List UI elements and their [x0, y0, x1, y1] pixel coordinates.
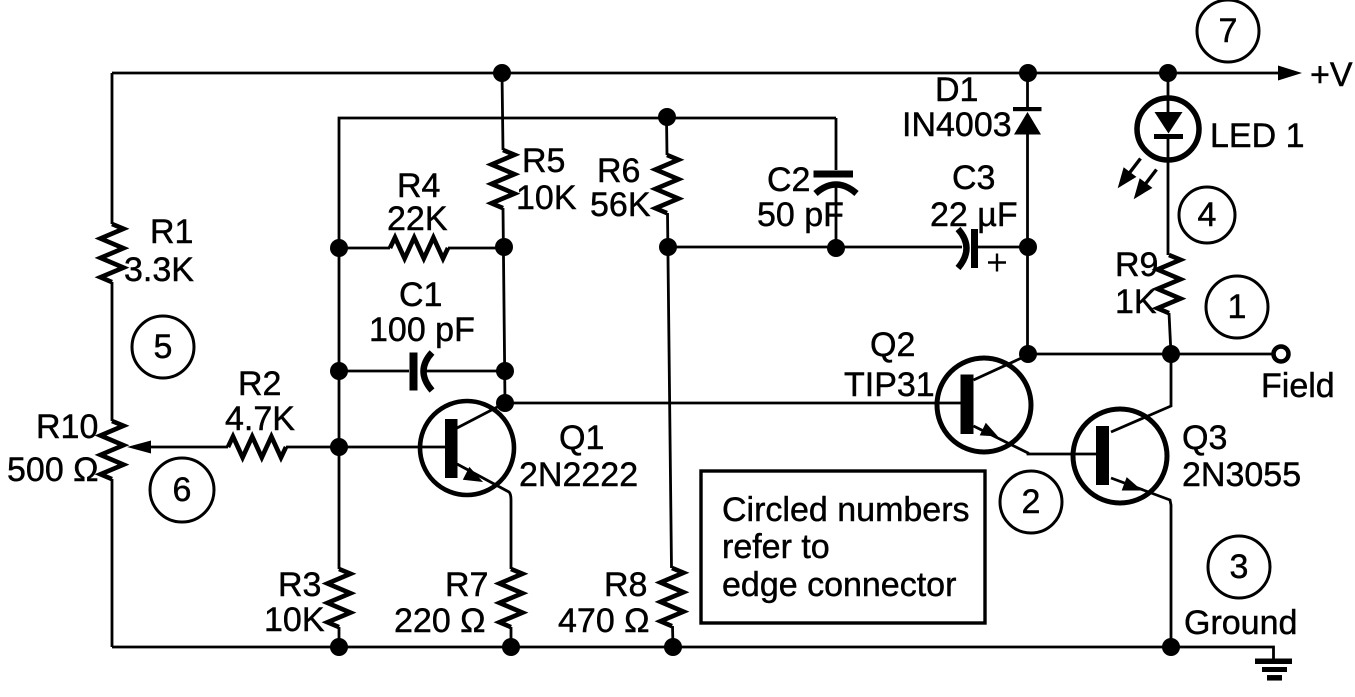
svg-text:22 µF: 22 µF	[930, 196, 1018, 234]
svg-text:56K: 56K	[590, 186, 651, 224]
svg-text:C1: C1	[399, 276, 442, 314]
svg-text:Ground: Ground	[1184, 604, 1297, 642]
svg-text:10K: 10K	[264, 601, 325, 639]
svg-text:1K: 1K	[1115, 283, 1157, 321]
svg-text:edge connector: edge connector	[722, 566, 956, 604]
svg-text:IN4003: IN4003	[902, 106, 1012, 144]
svg-text:R2: R2	[238, 365, 281, 403]
svg-text:R1: R1	[150, 213, 193, 251]
svg-text:Q2: Q2	[870, 326, 915, 364]
svg-text:4: 4	[1198, 196, 1217, 234]
svg-text:2N2222: 2N2222	[519, 456, 638, 494]
svg-text:3.3K: 3.3K	[124, 251, 194, 289]
svg-text:TIP31: TIP31	[844, 366, 935, 404]
svg-text:+V: +V	[1310, 56, 1353, 94]
svg-text:6: 6	[173, 471, 192, 509]
svg-text:Circled numbers: Circled numbers	[722, 491, 970, 529]
svg-text:D1: D1	[935, 71, 978, 109]
svg-text:R3: R3	[278, 566, 321, 604]
svg-text:Field: Field	[1261, 367, 1335, 405]
svg-text:C2: C2	[767, 161, 810, 199]
svg-text:4.7K: 4.7K	[225, 400, 295, 438]
svg-text:1: 1	[1228, 288, 1247, 326]
svg-text:100 pF: 100 pF	[369, 311, 475, 349]
svg-text:Q1: Q1	[559, 419, 604, 457]
svg-text:R10: R10	[36, 408, 98, 446]
svg-text:470 Ω: 470 Ω	[558, 602, 650, 640]
svg-text:3: 3	[1230, 548, 1249, 586]
svg-text:R9: R9	[1115, 246, 1158, 284]
svg-text:R8: R8	[604, 566, 647, 604]
svg-text:50 pF: 50 pF	[757, 196, 844, 234]
svg-text:R7: R7	[445, 566, 488, 604]
svg-text:2N3055: 2N3055	[1182, 456, 1301, 494]
svg-text:LED 1: LED 1	[1210, 117, 1305, 155]
svg-text:500 Ω: 500 Ω	[7, 451, 99, 489]
svg-text:220 Ω: 220 Ω	[394, 602, 486, 640]
svg-text:refer to: refer to	[722, 528, 830, 566]
svg-text:C3: C3	[952, 159, 995, 197]
svg-text:5: 5	[154, 328, 173, 366]
svg-text:R6: R6	[597, 152, 640, 190]
svg-text:7: 7	[1219, 12, 1238, 50]
svg-text:2: 2	[1022, 483, 1041, 521]
svg-text:Q3: Q3	[1182, 419, 1227, 457]
svg-text:10K: 10K	[516, 179, 577, 217]
svg-text:22K: 22K	[387, 200, 448, 238]
svg-text:R5: R5	[522, 142, 565, 180]
